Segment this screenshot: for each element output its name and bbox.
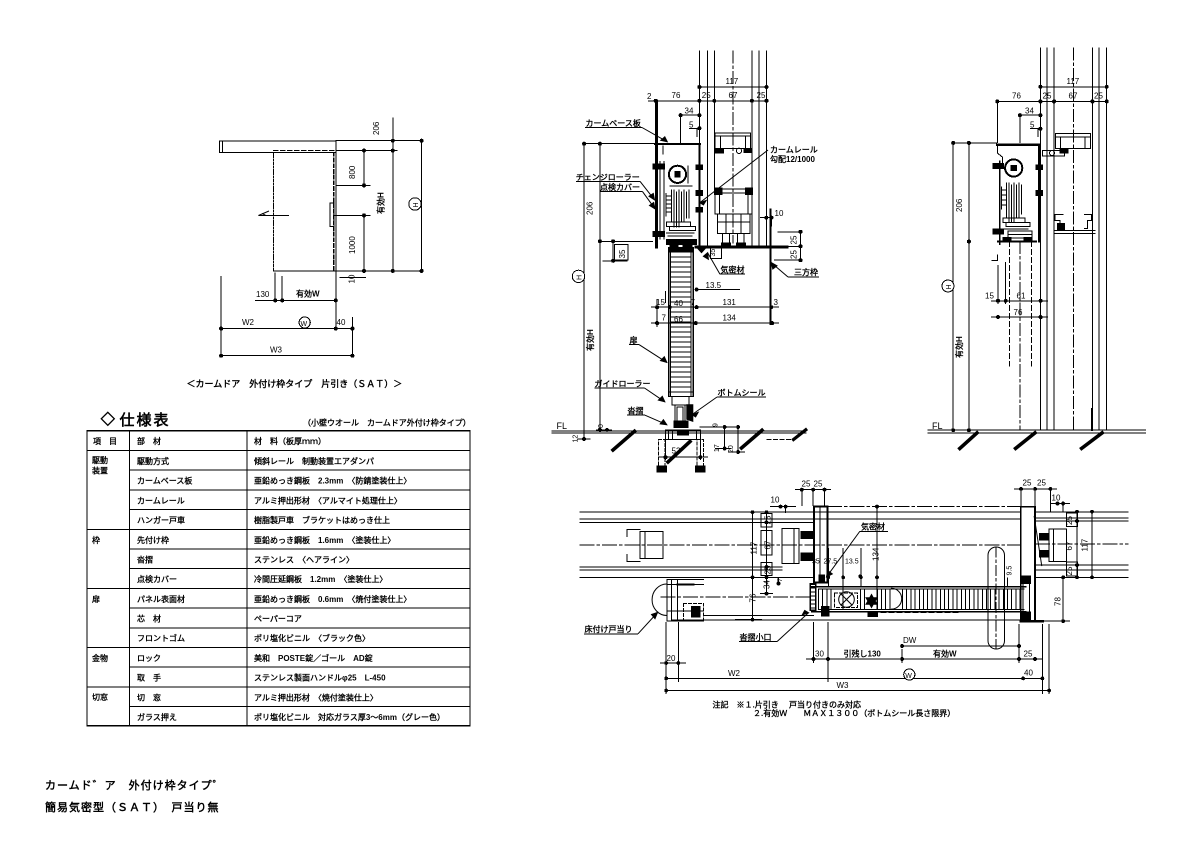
leader 点検カバー — [600, 191, 643, 193]
mechanism bottom black bits — [670, 244, 678, 248]
svg-text:206: 206 — [955, 198, 964, 212]
svg-text:金物: 金物 — [91, 653, 108, 663]
pocket head line — [827, 506, 1020, 508]
svg-text:H: H — [413, 202, 420, 207]
dim 5 tick — [1030, 128, 1040, 130]
svg-text:34: 34 — [685, 107, 694, 116]
dim 35/27.5/13.5 verticals — [827, 548, 829, 587]
floor hatch stroke 2 — [1016, 433, 1035, 449]
door travel centerline — [661, 596, 812, 598]
floor hatch dashed continuation — [767, 438, 794, 440]
leader 沓摺 — [627, 414, 645, 416]
lintel frame plate (三方枠) — [696, 245, 787, 248]
svg-text:25: 25 — [1065, 566, 1074, 575]
svg-text:25: 25 — [790, 235, 799, 244]
svg-text:勾配12/1000: 勾配12/1000 — [770, 154, 815, 164]
svg-text:35: 35 — [812, 559, 820, 566]
svg-text:15: 15 — [656, 298, 665, 307]
svg-text:＜カームドア 外付け枠タイプ 片引き（ＳＡＴ）＞: ＜カームドア 外付け枠タイプ 片引き（ＳＡＴ）＞ — [187, 378, 403, 389]
door right end keeper — [1022, 576, 1031, 584]
mechanism right edge plate — [1038, 145, 1040, 242]
door panel bottom — [274, 270, 336, 272]
trolley hanger leg B — [738, 234, 745, 245]
table row lines (col2-col3) — [130, 469, 471, 471]
svg-text:131: 131 — [723, 298, 737, 307]
dim 25/67/25 stack verticals — [766, 512, 768, 577]
svg-text:25: 25 — [802, 480, 811, 489]
svg-text:アルミ押出形材 〈アルマイト処理仕上〉: アルミ押出形材 〈アルマイト処理仕上〉 — [254, 495, 402, 505]
svg-text:材 料（板厚ｍｍ）: 材 料（板厚ｍｍ） — [254, 436, 326, 446]
svg-text:有効W: 有効W — [296, 289, 320, 299]
mechanism top plate — [655, 143, 700, 145]
svg-text:ボトムシール: ボトムシール — [718, 388, 766, 398]
thumbturn star — [866, 595, 877, 608]
weatherstrip at lintel — [697, 248, 706, 253]
center section dimension texts — [557, 77, 799, 456]
svg-text:117: 117 — [1067, 77, 1080, 86]
wall line left-3 — [1053, 48, 1055, 430]
svg-text:カームド゛ア 外付け枠タイプ゜: カームド゛ア 外付け枠タイプ゜ — [45, 778, 225, 792]
svg-text:枠: 枠 — [91, 535, 100, 545]
dim 25 25 above right frame — [1020, 489, 1022, 507]
svg-text:10: 10 — [348, 274, 357, 283]
door panel band top skin — [812, 586, 1026, 588]
svg-text:25: 25 — [1043, 92, 1052, 101]
svg-text:61: 61 — [1017, 292, 1026, 301]
dimension 10 small line — [340, 277, 366, 279]
wall inner line bottom-3 — [580, 569, 782, 571]
guide roller assembly — [672, 396, 689, 405]
svg-text:亜鉛めっき鋼板 2.3mm 〈防錆塗装仕上〉: 亜鉛めっき鋼板 2.3mm 〈防錆塗装仕上〉 — [254, 476, 411, 486]
svg-text:ステンレス 〈ヘアライン〉: ステンレス 〈ヘアライン〉 — [254, 554, 354, 564]
svg-text:52: 52 — [672, 447, 681, 456]
svg-text:1000: 1000 — [348, 236, 357, 254]
cover screw bottom — [653, 231, 665, 236]
svg-text:800: 800 — [348, 165, 357, 179]
svg-text:134: 134 — [723, 314, 737, 323]
svg-text:3: 3 — [774, 298, 779, 307]
circled W symbol — [299, 317, 310, 328]
svg-text:亜鉛めっき鋼板 1.6mm 〈塗装仕上〉: 亜鉛めっき鋼板 1.6mm 〈塗装仕上〉 — [254, 535, 395, 545]
dim H vertical — [952, 143, 954, 430]
dim 13.5 — [695, 289, 703, 291]
wall line left-1 — [1039, 48, 1041, 430]
cover screw bottom — [993, 229, 1004, 234]
right jamb frame column — [1021, 507, 1035, 622]
svg-text:気密材: 気密材 — [721, 265, 745, 275]
door edge dashed (open) A — [1009, 242, 1011, 366]
wall line left-1 — [698, 51, 700, 144]
svg-text:117: 117 — [1081, 538, 1090, 551]
svg-text:2: 2 — [647, 92, 652, 101]
svg-text:40: 40 — [1024, 669, 1033, 678]
leader カームベース板 — [585, 127, 642, 129]
svg-text:130: 130 — [256, 290, 270, 299]
floor hatch stroke 4 — [794, 430, 806, 440]
rail dashed line inside bar — [274, 149, 337, 151]
svg-text:樹脂製戸車 ブラケットはめっき仕上: 樹脂製戸車 ブラケットはめっき仕上 — [254, 515, 390, 525]
svg-text:美和 POSTE錠／ゴール AD錠: 美和 POSTE錠／ゴール AD錠 — [254, 653, 374, 663]
svg-text:沓摺: 沓摺 — [136, 554, 153, 564]
leader 沓摺小口 — [739, 641, 777, 643]
svg-text:有効H: 有効H — [585, 329, 595, 351]
dimension W2 / 40 line — [220, 328, 353, 330]
door edge dashed (open) B — [1031, 242, 1033, 366]
svg-text:117: 117 — [750, 541, 759, 554]
svg-text:点検カバー: 点検カバー — [137, 574, 177, 584]
leader ガイドローラー — [595, 387, 645, 389]
door bottom rail — [669, 392, 694, 396]
svg-text:有効W: 有効W — [933, 649, 957, 659]
dim 76 line (lower) — [991, 316, 1048, 318]
chain and guide bundle — [1006, 183, 1008, 218]
rail top support bracket — [715, 133, 750, 149]
wall centerline — [732, 51, 734, 243]
cover screw top — [653, 164, 665, 169]
wall line left-2 — [706, 51, 708, 245]
svg-text:項 目: 項 目 — [93, 437, 117, 446]
floor door stop — [667, 580, 672, 622]
svg-text:W2: W2 — [242, 318, 255, 327]
dim 34 line — [1020, 114, 1041, 116]
chain roller — [1005, 159, 1022, 176]
svg-text:W: W — [301, 321, 308, 328]
bottom dim row A: 30/引残し130/有効W/25 — [813, 622, 815, 663]
right frame vertical — [770, 210, 772, 325]
svg-text:35: 35 — [710, 249, 717, 257]
dim 20 (stop) — [665, 622, 667, 694]
svg-text:沓摺: 沓摺 — [627, 406, 644, 416]
svg-text:7: 7 — [691, 298, 696, 307]
svg-text:ガイドローラー: ガイドローラー — [595, 378, 651, 388]
calm base plate step — [997, 145, 1002, 165]
svg-text:H: H — [577, 275, 584, 280]
svg-text:ポリ塩化ビニル 〈ブラック色〉: ポリ塩化ビニル 〈ブラック色〉 — [254, 633, 370, 643]
svg-text:25: 25 — [1037, 479, 1046, 488]
right section dimensions — [942, 85, 1108, 431]
svg-text:H: H — [946, 284, 953, 289]
svg-text:76: 76 — [1014, 308, 1023, 317]
dim 35 box — [612, 241, 614, 260]
floor hatch stroke 2 — [668, 442, 690, 463]
svg-text:仕様表: 仕様表 — [119, 411, 171, 429]
svg-text:芯 材: 芯 材 — [137, 614, 161, 624]
wall line left-3 — [713, 51, 715, 189]
svg-text:25: 25 — [790, 250, 799, 259]
mechanism top plate — [997, 143, 1040, 145]
bracket clamp — [715, 149, 724, 154]
svg-text:35: 35 — [618, 249, 627, 258]
dim 117 line — [1040, 86, 1106, 88]
wall line right-1 — [1091, 48, 1093, 430]
dim 5 tick — [689, 127, 699, 129]
svg-text:117: 117 — [726, 77, 739, 86]
svg-text:25: 25 — [1094, 92, 1103, 101]
rail attachment bolts on mech edge — [696, 165, 703, 170]
leader カームレール — [700, 150, 768, 203]
plan view dimension texts — [667, 479, 1090, 691]
svg-text:簡易気密型（ＳＡＴ） 戸当り無: 簡易気密型（ＳＡＴ） 戸当り無 — [45, 800, 220, 814]
svg-text:5: 5 — [1030, 121, 1035, 130]
svg-text:76: 76 — [1012, 92, 1021, 101]
svg-text:カームベース板: カームベース板 — [137, 476, 193, 486]
svg-text:部 材: 部 材 — [137, 436, 161, 446]
extension mech top left — [584, 143, 656, 145]
base plate left edge — [999, 161, 1001, 244]
svg-text:先付け枠: 先付け枠 — [137, 535, 169, 545]
door handle — [330, 203, 334, 227]
svg-text:9.5: 9.5 — [1007, 566, 1014, 576]
dim 134 vertical — [876, 507, 878, 610]
extension door bottom to right — [336, 270, 423, 272]
svg-text:ガラス押え: ガラス押え — [137, 712, 177, 722]
rail bracket right instance — [1049, 529, 1066, 561]
wall centerline — [580, 544, 1021, 546]
svg-text:15: 15 — [985, 292, 994, 301]
svg-text:25: 25 — [814, 480, 823, 489]
svg-text:10: 10 — [775, 209, 784, 218]
svg-text:フロントゴム: フロントゴム — [137, 633, 185, 643]
svg-text:67: 67 — [1065, 541, 1074, 550]
svg-text:0: 0 — [598, 424, 605, 428]
trolley at rest — [1008, 231, 1032, 238]
svg-text:扉: 扉 — [91, 594, 100, 604]
door centerline (open) — [1019, 242, 1021, 431]
dim 206 + 有効H vertical — [599, 144, 601, 430]
svg-text:76: 76 — [749, 593, 758, 602]
wall stud box — [627, 530, 640, 562]
circled H symbol — [409, 198, 421, 210]
bottom extension verticals — [220, 277, 222, 357]
header rail bar — [220, 141, 337, 153]
circled H symbol — [572, 270, 584, 282]
svg-text:9: 9 — [713, 423, 720, 427]
leader 三方枠 — [788, 276, 819, 278]
extension line bar bottom — [336, 150, 397, 152]
plan view dimensions — [660, 488, 1093, 695]
extension mech bottom L — [992, 254, 998, 260]
wall line right-1 — [751, 51, 753, 245]
slide direction arrow — [259, 214, 289, 216]
skirting right — [1091, 409, 1093, 430]
dim 7/66/134 line — [651, 322, 779, 324]
svg-text:76: 76 — [672, 91, 681, 100]
leader 気密材 (plan) — [860, 531, 888, 533]
bottom seal — [687, 405, 693, 422]
track cover face line — [672, 619, 1021, 621]
svg-text:34: 34 — [763, 580, 772, 589]
svg-text:床付け戸当り: 床付け戸当り — [585, 624, 633, 634]
door panel left edge (dotted) — [273, 153, 275, 271]
svg-text:20: 20 — [667, 654, 676, 663]
svg-text:点検カバー: 点検カバー — [600, 182, 640, 192]
rail bracket left instance — [782, 529, 799, 564]
svg-text:ロック: ロック — [137, 653, 161, 663]
threshold anchor B — [697, 440, 703, 467]
dim 7 (plan) — [778, 577, 780, 583]
svg-text:34: 34 — [1025, 107, 1034, 116]
svg-text:（小壁ウオール カームドア外付け枠タイプ）: （小壁ウオール カームドア外付け枠タイプ） — [303, 418, 471, 428]
inspection cover strip — [659, 162, 661, 240]
svg-text:67: 67 — [1069, 92, 1078, 101]
dim 25/117/67/25 right columns — [1076, 512, 1078, 578]
svg-text:40: 40 — [337, 318, 346, 327]
chain and guide bundle — [671, 190, 673, 222]
dimension 800 — [363, 151, 365, 186]
svg-text:67: 67 — [764, 540, 773, 549]
sub floor line — [578, 438, 590, 440]
svg-text:ハンガー戸車: ハンガー戸車 — [137, 515, 185, 525]
dim row B: W2 / W / 40 — [666, 677, 1042, 679]
leader ボトムシール — [717, 396, 766, 398]
wall outer line top — [580, 511, 1021, 513]
trolley hanger leg A — [723, 234, 730, 245]
leader 気密材 — [720, 273, 745, 275]
table cell texts — [91, 436, 445, 722]
door core hatch lines — [818, 589, 820, 609]
svg-text:7: 7 — [777, 578, 784, 582]
svg-text:W: W — [905, 673, 912, 680]
svg-text:13.5: 13.5 — [706, 281, 722, 290]
dim 34 vertical (plan) — [766, 577, 768, 593]
dim 25/25 right verticals — [800, 232, 802, 260]
svg-text:駆動方式: 駆動方式 — [136, 456, 169, 466]
floor hatch stroke 3 — [1082, 433, 1103, 449]
svg-text:駆動: 駆動 — [91, 455, 108, 465]
table title diamond — [101, 412, 114, 425]
svg-text:13.5: 13.5 — [845, 559, 859, 566]
svg-text:アルミ押出形材 〈焼付塗装仕上〉: アルミ押出形材 〈焼付塗装仕上〉 — [254, 692, 378, 702]
leader 扉 — [629, 344, 639, 346]
svg-text:12: 12 — [573, 435, 580, 443]
dim 15/61 line — [991, 300, 1048, 302]
center section component labels — [576, 128, 819, 425]
svg-text:ポリ塩化ビニル 対応ガラス厚3～6mm（グレー色）: ポリ塩化ビニル 対応ガラス厚3～6mm（グレー色） — [254, 712, 445, 722]
dim H vertical — [583, 144, 585, 439]
edge gasket pill — [988, 547, 1005, 649]
svg-text:ステンレス製面ハンドルφ25 L-450: ステンレス製面ハンドルφ25 L-450 — [254, 673, 386, 683]
door left end stile — [810, 584, 815, 610]
dim 117 vertical (left inside) — [752, 512, 754, 577]
cover screw top — [993, 164, 1004, 169]
dim 78 vertical — [1062, 577, 1064, 621]
svg-text:25: 25 — [764, 515, 773, 524]
svg-text:カームレール: カームレール — [137, 496, 185, 505]
boxed 35 label right of door — [711, 247, 722, 258]
dim 12 below FL — [578, 438, 590, 440]
table outer frame — [87, 431, 470, 726]
svg-text:W2: W2 — [728, 669, 741, 678]
lock keeper at pocket frame — [822, 607, 830, 617]
damper lower bracket — [667, 222, 691, 227]
right section dimension texts — [932, 77, 1103, 431]
wall inner line top-3 — [580, 521, 814, 523]
svg-text:W3: W3 — [837, 681, 850, 690]
wall line right-3 — [766, 51, 768, 245]
svg-text:25: 25 — [764, 565, 773, 574]
wall inner line bottom-2 — [580, 566, 782, 568]
hanger trolley — [718, 214, 751, 234]
stopper dash below band — [868, 612, 877, 616]
svg-text:三方枠: 三方枠 — [794, 267, 818, 277]
svg-text:有効H: 有効H — [376, 192, 386, 214]
svg-text:チェンジローラー: チェンジローラー — [576, 173, 640, 182]
svg-text:25: 25 — [1065, 516, 1074, 525]
svg-text:装置: 装置 — [91, 466, 108, 476]
floor hatch stroke 1 — [960, 433, 977, 449]
right frame bottom return — [1021, 620, 1043, 622]
svg-text:扉: 扉 — [629, 335, 638, 345]
svg-text:切 窓: 切 窓 — [137, 692, 161, 702]
svg-text:7: 7 — [662, 314, 667, 323]
track cover face line left stub — [704, 615, 814, 617]
svg-text:10: 10 — [771, 496, 780, 505]
table header bottom line — [87, 450, 470, 452]
door panel right skin — [692, 248, 694, 397]
wall line right-3 — [1106, 48, 1108, 430]
svg-text:10: 10 — [1052, 494, 1061, 503]
svg-text:亜鉛めっき鋼板 0.6mm 〈焼付塗装仕上〉: 亜鉛めっき鋼板 0.6mm 〈焼付塗装仕上〉 — [254, 594, 411, 604]
center section dimensions — [572, 86, 802, 461]
dimension 130 / 有効W line — [256, 299, 336, 301]
svg-text:20: 20 — [728, 445, 735, 453]
rail top support bracket — [1056, 134, 1091, 149]
floor hatch stroke 1 — [613, 431, 635, 450]
dimension 1000 — [363, 215, 365, 271]
svg-text:取 手: 取 手 — [137, 673, 161, 683]
wall line left-2 — [1046, 48, 1048, 430]
weatherstrip black blob on frame — [819, 575, 825, 582]
table group boundary lines (full width) — [87, 528, 470, 530]
dim DW — [902, 645, 1019, 647]
svg-text:66: 66 — [674, 315, 683, 324]
calm base plate (left thick vertical) — [655, 101, 658, 247]
svg-text:カームレール: カームレール — [770, 146, 818, 155]
svg-text:冷間圧延鋼板 1.2mm 〈塗装仕上〉: 冷間圧延鋼板 1.2mm 〈塗装仕上〉 — [254, 574, 387, 584]
door panel left skin — [668, 248, 670, 397]
dim 0 at threshold — [596, 429, 612, 431]
dim 2/76/25/67/25 line — [648, 100, 767, 102]
svg-text:FL: FL — [557, 421, 568, 431]
dim 34 line — [681, 114, 700, 116]
floor hatch stroke 3 — [742, 430, 763, 448]
dim 9/17/20 at right of threshold — [700, 426, 740, 428]
dim 206 + 有効H vertical — [968, 143, 970, 430]
svg-text:25: 25 — [702, 91, 711, 100]
svg-text:25: 25 — [1024, 650, 1033, 659]
lock cylinder — [839, 592, 855, 608]
handle recess arc — [891, 588, 901, 609]
FL floor line — [552, 430, 806, 432]
plan label texts — [585, 522, 886, 642]
pocket mouth frame column — [814, 507, 827, 583]
svg-text:DW: DW — [903, 636, 917, 645]
extension mech bottom — [602, 240, 653, 242]
svg-text:30: 30 — [815, 650, 824, 659]
dim 76/25/67/25 line — [997, 100, 1106, 102]
rail lower bracket A — [1055, 215, 1063, 229]
svg-text:25: 25 — [1023, 479, 1032, 488]
damper lower bracket — [1003, 218, 1025, 223]
circled H symbol — [942, 280, 954, 292]
svg-text:67: 67 — [729, 91, 738, 100]
svg-text:134: 134 — [872, 547, 881, 561]
mechanism right edge plate — [698, 144, 700, 248]
svg-text:ペーパーコア: ペーパーコア — [254, 614, 302, 624]
dim 15/40/7/131/3 line — [651, 306, 779, 308]
threshold 沓摺 — [666, 430, 701, 440]
dimension W3 line — [221, 355, 352, 357]
